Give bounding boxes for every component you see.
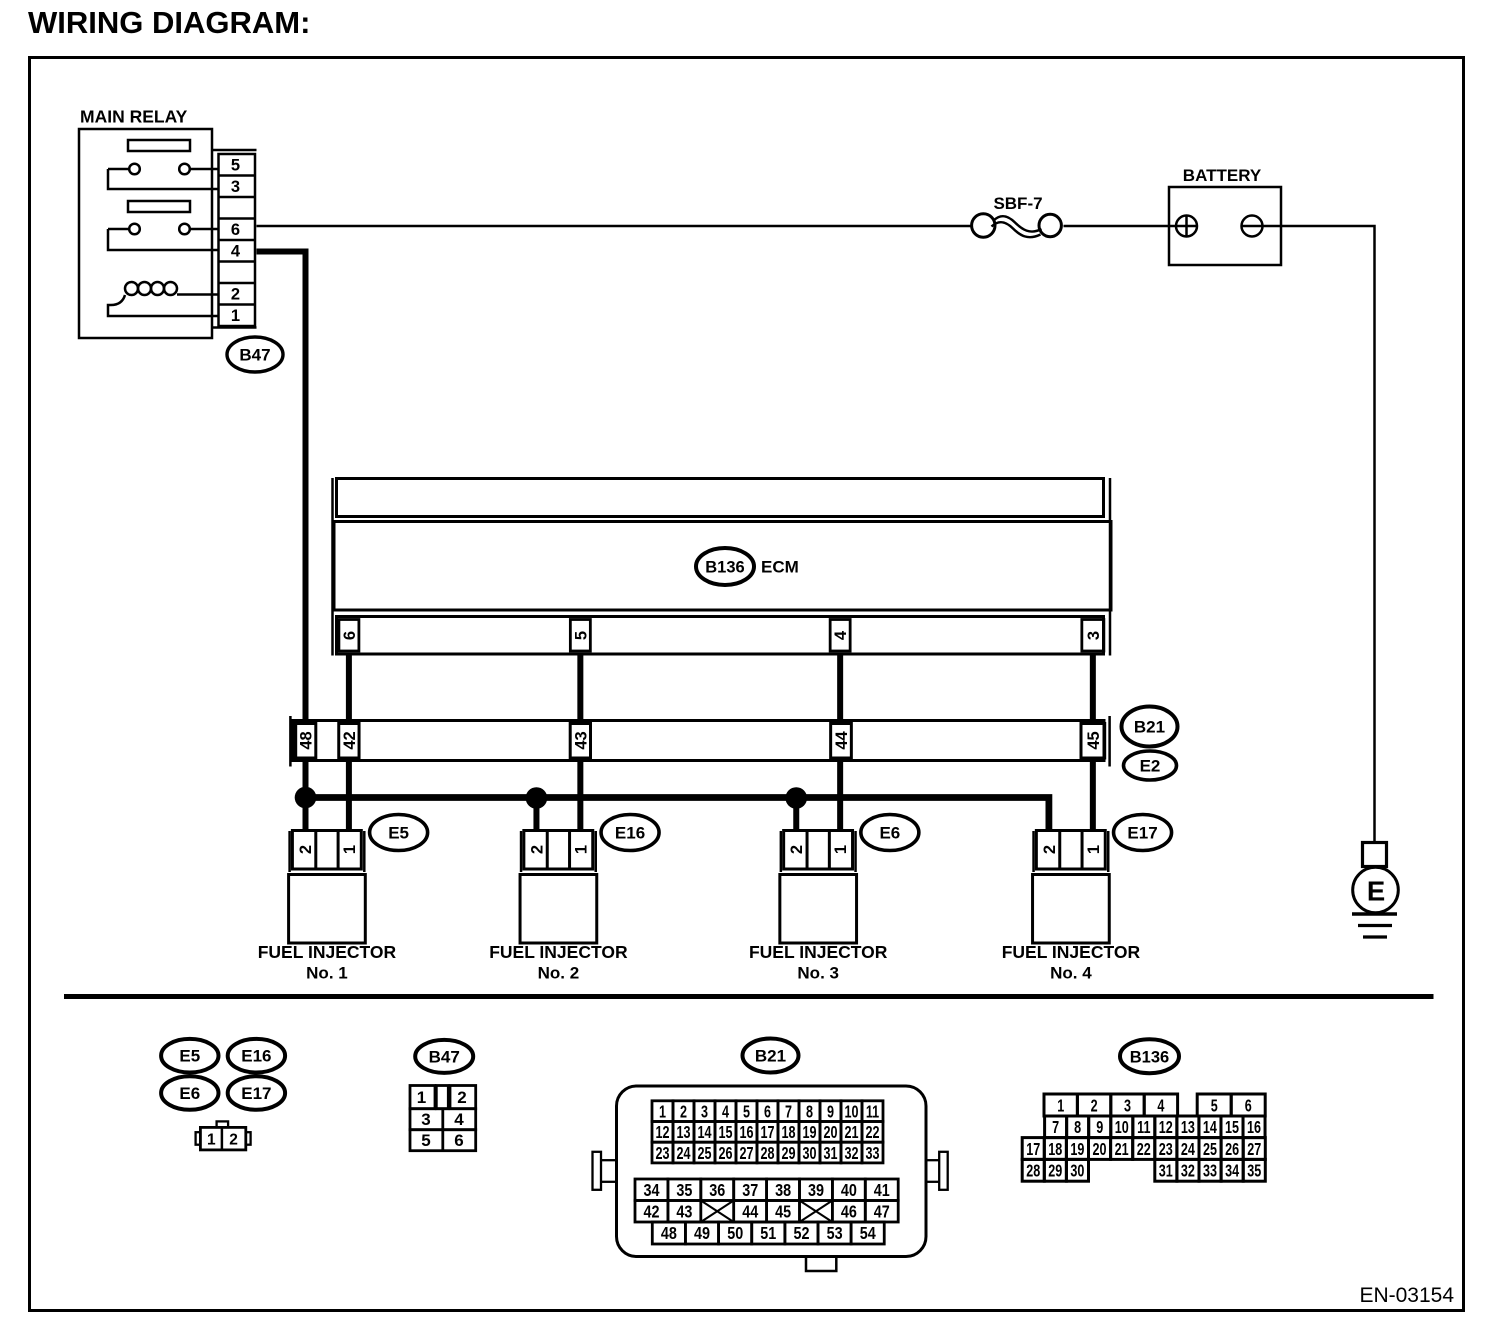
svg-text:48: 48	[661, 1224, 677, 1244]
svg-text:2: 2	[297, 845, 315, 854]
pin 16 cell (B136 view)	[1243, 1116, 1265, 1138]
svg-text:30: 30	[802, 1144, 816, 1164]
connector label E5	[370, 815, 428, 851]
injector connector view (pins 1 2)	[217, 1121, 229, 1127]
relay contact bar 1	[128, 140, 190, 151]
pin 36 cell (B21 view)	[701, 1179, 734, 1201]
svg-text:43: 43	[572, 731, 590, 749]
blocked cell (B21 view)	[800, 1201, 833, 1223]
svg-text:33: 33	[865, 1144, 879, 1164]
svg-text:14: 14	[697, 1123, 711, 1143]
pin 12 cell (B21 view)	[652, 1122, 673, 1143]
svg-text:25: 25	[1203, 1140, 1217, 1160]
wire B21 to injector 3 pin 1	[837, 761, 843, 832]
svg-text:51: 51	[760, 1224, 776, 1244]
pin 4 cell (B21 view)	[715, 1101, 736, 1122]
injector 4 connector brackets	[1032, 831, 1035, 872]
svg-text:11: 11	[866, 1102, 880, 1122]
pin 9 cell (B21 view)	[820, 1101, 841, 1122]
wire fuse to battery	[1064, 225, 1170, 228]
svg-text:29: 29	[1048, 1162, 1062, 1182]
svg-text:B136: B136	[705, 559, 744, 577]
svg-text:20: 20	[1092, 1140, 1106, 1160]
pin 48 cell (B21 view)	[652, 1222, 685, 1244]
connector label B136 (view)	[1120, 1039, 1179, 1073]
pin 1 cell (B136 view)	[1044, 1094, 1077, 1116]
ECM top strip	[337, 479, 1104, 517]
pin 8 cell (B136 view)	[1067, 1116, 1089, 1138]
pin 19 cell (B136 view)	[1066, 1138, 1088, 1160]
svg-text:8: 8	[806, 1102, 813, 1122]
svg-text:WIRING DIAGRAM:: WIRING DIAGRAM:	[28, 5, 310, 40]
wire ECM pin 3 to connector B21	[1090, 654, 1096, 720]
wire ECM pin 4 to connector B21	[837, 654, 843, 720]
svg-text:5: 5	[572, 631, 590, 640]
ECM pin 4 cell	[830, 620, 850, 652]
ECM connector bracket right	[1109, 478, 1112, 656]
ground bus wire	[306, 798, 1049, 832]
pin 25 cell (B136 view)	[1199, 1138, 1221, 1160]
svg-text:15: 15	[1225, 1118, 1239, 1138]
svg-text:31: 31	[823, 1144, 837, 1164]
svg-text:7: 7	[785, 1102, 792, 1122]
pin 35 cell (B136 view)	[1243, 1159, 1265, 1181]
svg-text:40: 40	[841, 1181, 857, 1201]
pin 20 cell (B136 view)	[1089, 1138, 1111, 1160]
pin 34 cell (B136 view)	[1221, 1159, 1243, 1181]
svg-text:1: 1	[207, 1131, 216, 1148]
svg-text:26: 26	[718, 1144, 732, 1164]
pin 18 cell (B136 view)	[1044, 1138, 1066, 1160]
svg-text:2: 2	[457, 1088, 466, 1107]
svg-text:22: 22	[1137, 1140, 1151, 1160]
pin 29 cell (B21 view)	[778, 1142, 799, 1163]
pin 35 cell (B21 view)	[668, 1179, 701, 1201]
svg-text:E: E	[1367, 876, 1385, 907]
pin 44 cell (B21 strip)	[831, 724, 852, 759]
svg-text:18: 18	[1048, 1140, 1062, 1160]
svg-text:4: 4	[454, 1110, 464, 1129]
connector label E5 (view)	[161, 1039, 218, 1073]
svg-text:43: 43	[676, 1202, 692, 1222]
ground	[1352, 912, 1397, 915]
pin 14 cell (B136 view)	[1199, 1116, 1221, 1138]
svg-text:21: 21	[844, 1123, 858, 1143]
svg-text:ECM: ECM	[761, 558, 799, 577]
pin 6 cell (B136 view)	[1231, 1094, 1265, 1116]
svg-text:13: 13	[1181, 1118, 1195, 1138]
pin 33 cell (B21 view)	[862, 1142, 883, 1163]
ECM box B136	[334, 522, 1111, 611]
svg-text:E6: E6	[879, 824, 900, 843]
svg-text:16: 16	[1247, 1118, 1261, 1138]
svg-text:9: 9	[1096, 1118, 1103, 1138]
pin 13 cell (B21 view)	[673, 1122, 694, 1143]
ECM pin 5 cell	[570, 620, 590, 652]
svg-text:12: 12	[1159, 1118, 1173, 1138]
connector label E16	[601, 815, 659, 851]
pin 7 cell (B21 view)	[778, 1101, 799, 1122]
injector 2 connector brackets	[520, 831, 523, 872]
pin 3 cell (B21 view)	[694, 1101, 715, 1122]
svg-text:1: 1	[1085, 845, 1103, 854]
wire B21 pin 48 to injector 1 pin 2	[303, 761, 309, 832]
pin 10 cell (B136 view)	[1111, 1116, 1133, 1138]
fuel injector No.1 connector	[292, 831, 361, 870]
svg-text:9: 9	[827, 1102, 834, 1122]
svg-text:No. 3: No. 3	[797, 964, 839, 983]
pin 28 cell (B21 view)	[757, 1142, 778, 1163]
pin 34 cell (B21 view)	[635, 1179, 668, 1201]
connector B21/E2 strip	[293, 721, 1104, 761]
junction node 2	[526, 787, 548, 809]
svg-text:32: 32	[844, 1144, 858, 1164]
svg-text:35: 35	[676, 1181, 692, 1201]
svg-text:34: 34	[1225, 1162, 1239, 1182]
connector label E16 (view)	[228, 1039, 285, 1073]
svg-text:44: 44	[833, 731, 851, 750]
svg-text:BATTERY: BATTERY	[1183, 166, 1262, 185]
pin 41 cell (B21 view)	[865, 1179, 898, 1201]
pin 38 cell (B21 view)	[767, 1179, 800, 1201]
pin 21 cell (B21 view)	[841, 1122, 862, 1143]
relay coil	[125, 282, 138, 295]
pin 48 cell (B21 strip)	[296, 724, 316, 759]
connector B47 view	[410, 1086, 435, 1109]
wire bus drop to injector 3 pin 2	[793, 798, 799, 832]
svg-text:2: 2	[229, 1131, 238, 1148]
svg-text:E17: E17	[1127, 824, 1157, 843]
connector label E17 (view)	[228, 1076, 285, 1110]
pin 42 cell (B21 view)	[635, 1201, 668, 1223]
pin 49 cell (B21 view)	[685, 1222, 718, 1244]
connector B21 view bottom tab	[806, 1257, 836, 1272]
fuel injector No.4 connector	[1036, 831, 1105, 870]
pin 26 cell (B136 view)	[1221, 1138, 1243, 1160]
ECM connector bracket left	[331, 478, 334, 656]
pin 9 cell (B136 view)	[1089, 1116, 1111, 1138]
svg-text:8: 8	[1074, 1118, 1081, 1138]
pin 50 cell (B21 view)	[719, 1222, 752, 1244]
svg-text:5: 5	[231, 157, 240, 175]
svg-text:2: 2	[528, 845, 546, 854]
pin 32 cell (B136 view)	[1177, 1159, 1199, 1181]
pin 40 cell (B21 view)	[832, 1179, 865, 1201]
svg-text:E16: E16	[241, 1047, 271, 1066]
wire B21 to injector 2 pin 1	[577, 761, 583, 832]
pin 13 cell (B136 view)	[1177, 1116, 1199, 1138]
svg-text:34: 34	[643, 1181, 659, 1201]
svg-text:29: 29	[781, 1144, 795, 1164]
pin 11 cell (B21 view)	[862, 1101, 883, 1122]
pin 27 cell (B136 view)	[1243, 1138, 1265, 1160]
svg-text:1: 1	[231, 307, 240, 325]
svg-text:No. 1: No. 1	[306, 964, 348, 983]
svg-text:EN-03154: EN-03154	[1359, 1284, 1454, 1307]
svg-text:1: 1	[832, 845, 850, 854]
svg-text:4: 4	[832, 630, 850, 640]
relay box	[79, 129, 212, 338]
ECM pin 3 cell	[1082, 620, 1104, 652]
pin 23 cell (B21 view)	[652, 1142, 673, 1163]
svg-text:54: 54	[860, 1224, 876, 1244]
connector B21/E2 bracket left	[289, 716, 292, 767]
wire B21 to injector 4 pin 1	[1090, 761, 1096, 832]
pin 24 cell (B21 view)	[673, 1142, 694, 1163]
svg-text:6: 6	[764, 1102, 771, 1122]
wire ECM pin 5 to connector B21	[577, 654, 583, 720]
relay contact 2 terminals	[108, 228, 129, 231]
svg-text:50: 50	[727, 1224, 743, 1244]
pin 26 cell (B21 view)	[715, 1142, 736, 1163]
fuel injector No.2 connector	[524, 831, 593, 870]
svg-text:48: 48	[298, 731, 316, 749]
svg-text:23: 23	[1159, 1140, 1173, 1160]
svg-text:36: 36	[709, 1181, 725, 1201]
pin 39 cell (B21 view)	[800, 1179, 833, 1201]
svg-text:49: 49	[694, 1224, 710, 1244]
pin 43 cell (B21 view)	[668, 1201, 701, 1223]
svg-text:42: 42	[643, 1202, 659, 1222]
svg-text:37: 37	[742, 1181, 758, 1201]
svg-text:2: 2	[1091, 1096, 1098, 1116]
pin 31 cell (B21 view)	[820, 1142, 841, 1163]
svg-text:FUEL INJECTOR: FUEL INJECTOR	[749, 942, 888, 962]
pin 17 cell (B136 view)	[1022, 1138, 1044, 1160]
wire bus drop to injector 2 pin 2	[533, 798, 539, 832]
svg-text:17: 17	[760, 1123, 774, 1143]
fuel injector No.2 body	[520, 875, 597, 944]
svg-text:44: 44	[742, 1202, 758, 1222]
pin 30 cell (B21 view)	[799, 1142, 820, 1163]
svg-text:1: 1	[659, 1102, 666, 1122]
pin 15 cell (B136 view)	[1221, 1116, 1243, 1138]
svg-text:6: 6	[231, 221, 240, 239]
svg-text:5: 5	[1211, 1096, 1218, 1116]
svg-text:FUEL INJECTOR: FUEL INJECTOR	[489, 942, 628, 962]
svg-text:3: 3	[701, 1102, 708, 1122]
pin 51 cell (B21 view)	[752, 1222, 785, 1244]
pin 30 cell (B136 view)	[1066, 1159, 1088, 1181]
svg-text:6: 6	[1245, 1096, 1252, 1116]
pin 17 cell (B21 view)	[757, 1122, 778, 1143]
pin 43 cell (B21 strip)	[570, 724, 590, 759]
pin 29 cell (B136 view)	[1044, 1159, 1066, 1181]
svg-text:18: 18	[781, 1123, 795, 1143]
svg-text:11: 11	[1137, 1118, 1151, 1138]
svg-text:MAIN RELAY: MAIN RELAY	[80, 107, 188, 127]
pin 37 cell (B21 view)	[734, 1179, 767, 1201]
svg-text:1: 1	[572, 845, 590, 854]
svg-text:24: 24	[1181, 1140, 1195, 1160]
svg-text:FUEL INJECTOR: FUEL INJECTOR	[258, 942, 397, 962]
pin 45 cell (B21 strip)	[1081, 724, 1105, 759]
svg-text:7: 7	[1052, 1118, 1059, 1138]
svg-text:6: 6	[341, 631, 359, 640]
fuse SBF-7	[972, 214, 995, 237]
wire ECM pin 6 to connector B21	[346, 654, 352, 720]
wire relay pin 4 to connector B21 pin 48	[257, 252, 306, 721]
wire relay contact 1 to pin 3	[108, 169, 218, 189]
svg-text:4: 4	[231, 243, 241, 261]
svg-text:30: 30	[1070, 1162, 1084, 1182]
svg-text:2: 2	[231, 286, 240, 304]
pin 54 cell (B21 view)	[851, 1222, 884, 1244]
battery box	[1169, 187, 1281, 265]
pin 2 cell (B21 view)	[673, 1101, 694, 1122]
pin 14 cell (B21 view)	[694, 1122, 715, 1143]
pin 46 cell (B21 view)	[832, 1201, 865, 1223]
connector label E6	[861, 815, 919, 851]
pin 25 cell (B21 view)	[694, 1142, 715, 1163]
svg-text:E5: E5	[179, 1047, 200, 1066]
svg-text:10: 10	[1115, 1118, 1129, 1138]
svg-text:5: 5	[743, 1102, 750, 1122]
svg-text:3: 3	[421, 1110, 430, 1129]
svg-text:31: 31	[1159, 1162, 1173, 1182]
pin 23 cell (B136 view)	[1155, 1138, 1177, 1160]
svg-text:35: 35	[1247, 1162, 1261, 1182]
connector B21 view left tab	[601, 1159, 617, 1161]
svg-text:2: 2	[1041, 845, 1059, 854]
pin 19 cell (B21 view)	[799, 1122, 820, 1143]
pin 1 cell (B21 view)	[652, 1101, 673, 1122]
connector B47 pin column box	[219, 154, 256, 326]
pin 10 cell (B21 view)	[841, 1101, 862, 1122]
pin 52 cell (B21 view)	[785, 1222, 818, 1244]
svg-text:12: 12	[655, 1123, 669, 1143]
ground terminal square	[1363, 843, 1387, 867]
relay contact bar 2	[128, 201, 190, 212]
svg-text:1: 1	[341, 845, 359, 854]
pin 31 cell (B136 view)	[1155, 1159, 1177, 1181]
svg-text:32: 32	[1181, 1162, 1195, 1182]
svg-text:38: 38	[775, 1181, 791, 1201]
svg-text:1: 1	[1057, 1096, 1064, 1116]
svg-text:2: 2	[680, 1102, 687, 1122]
svg-text:17: 17	[1026, 1140, 1040, 1160]
svg-text:B47: B47	[239, 346, 270, 365]
connector label B136 (on ECM)	[696, 548, 754, 585]
svg-text:26: 26	[1225, 1140, 1239, 1160]
connector label B21 (view)	[743, 1039, 799, 1073]
connector label B21	[1122, 707, 1178, 747]
svg-text:No. 2: No. 2	[538, 964, 580, 983]
svg-text:E2: E2	[1140, 757, 1161, 776]
pin 3 cell (B136 view)	[1111, 1094, 1144, 1116]
svg-text:22: 22	[865, 1123, 879, 1143]
svg-text:28: 28	[760, 1144, 774, 1164]
pin 4 cell (B136 view)	[1144, 1094, 1177, 1116]
ECM pin 6 cell	[339, 620, 359, 652]
svg-text:13: 13	[676, 1123, 690, 1143]
connector B21 view right tab	[926, 1159, 942, 1161]
svg-text:16: 16	[739, 1123, 753, 1143]
connector label E17	[1114, 815, 1172, 851]
connector label B47 (view)	[415, 1040, 473, 1073]
pin 12 cell (B136 view)	[1155, 1116, 1177, 1138]
fuel injector No.1 body	[289, 875, 366, 944]
svg-text:47: 47	[874, 1202, 890, 1222]
svg-text:14: 14	[1203, 1118, 1217, 1138]
pin 42 cell (B21 strip)	[339, 724, 359, 759]
battery negative terminal	[1242, 216, 1263, 237]
pin 20 cell (B21 view)	[820, 1122, 841, 1143]
wire battery to ground E	[1281, 226, 1375, 842]
svg-text:39: 39	[808, 1181, 824, 1201]
wire relay pin 6 to fuse SBF-7	[257, 225, 971, 228]
svg-text:B47: B47	[429, 1047, 460, 1066]
svg-text:33: 33	[1203, 1162, 1217, 1182]
svg-text:19: 19	[1070, 1140, 1084, 1160]
svg-text:4: 4	[722, 1102, 729, 1122]
fuel injector No.3 body	[780, 875, 857, 944]
connector B47 pin column bracket	[213, 149, 257, 152]
svg-text:20: 20	[823, 1123, 837, 1143]
svg-text:27: 27	[739, 1144, 753, 1164]
svg-text:52: 52	[793, 1224, 809, 1244]
svg-text:SBF-7: SBF-7	[993, 194, 1042, 213]
pin 47 cell (B21 view)	[865, 1201, 898, 1223]
svg-text:FUEL INJECTOR: FUEL INJECTOR	[1002, 942, 1141, 962]
svg-text:B136: B136	[1130, 1048, 1169, 1066]
svg-text:25: 25	[697, 1144, 711, 1164]
pin 27 cell (B21 view)	[736, 1142, 757, 1163]
svg-text:23: 23	[655, 1144, 669, 1164]
pin 7 cell (B136 view)	[1045, 1116, 1067, 1138]
injector 3 connector brackets	[780, 831, 783, 872]
svg-text:53: 53	[827, 1224, 843, 1244]
svg-text:6: 6	[454, 1131, 463, 1150]
svg-text:21: 21	[1115, 1140, 1129, 1160]
svg-text:45: 45	[775, 1202, 791, 1222]
wire B21 to injector 1 pin 1	[346, 761, 352, 832]
svg-text:B21: B21	[755, 1047, 786, 1066]
pin 5 cell (B21 view)	[736, 1101, 757, 1122]
junction node 3	[785, 787, 807, 809]
pin 21 cell (B136 view)	[1111, 1138, 1133, 1160]
svg-text:3: 3	[231, 178, 240, 196]
connector B21 view body	[617, 1086, 927, 1257]
svg-text:E16: E16	[615, 824, 645, 843]
svg-text:E17: E17	[241, 1084, 271, 1103]
svg-text:28: 28	[1026, 1162, 1040, 1182]
svg-text:E6: E6	[179, 1084, 200, 1103]
connector label E6 (view)	[161, 1076, 218, 1110]
pin 44 cell (B21 view)	[734, 1201, 767, 1223]
svg-text:1: 1	[417, 1088, 426, 1107]
svg-text:19: 19	[802, 1123, 816, 1143]
pin 22 cell (B136 view)	[1133, 1138, 1155, 1160]
pin 16 cell (B21 view)	[736, 1122, 757, 1143]
svg-text:B21: B21	[1134, 718, 1165, 737]
fuel injector No.3 connector	[784, 831, 853, 870]
pin 45 cell (B21 view)	[767, 1201, 800, 1223]
pin 2 cell (B136 view)	[1077, 1094, 1110, 1116]
battery positive terminal	[1169, 225, 1176, 228]
blocked cell (B21 view)	[701, 1201, 734, 1223]
pin 24 cell (B136 view)	[1177, 1138, 1199, 1160]
connector label B47	[227, 337, 283, 372]
svg-text:5: 5	[421, 1131, 430, 1150]
svg-text:3: 3	[1085, 631, 1103, 640]
wire relay coil to pin 1	[108, 295, 218, 316]
svg-text:2: 2	[788, 845, 806, 854]
connector B21/E2 bracket right	[1108, 716, 1111, 767]
pin 28 cell (B136 view)	[1022, 1159, 1044, 1181]
svg-text:24: 24	[676, 1144, 690, 1164]
pin 53 cell (B21 view)	[818, 1222, 851, 1244]
